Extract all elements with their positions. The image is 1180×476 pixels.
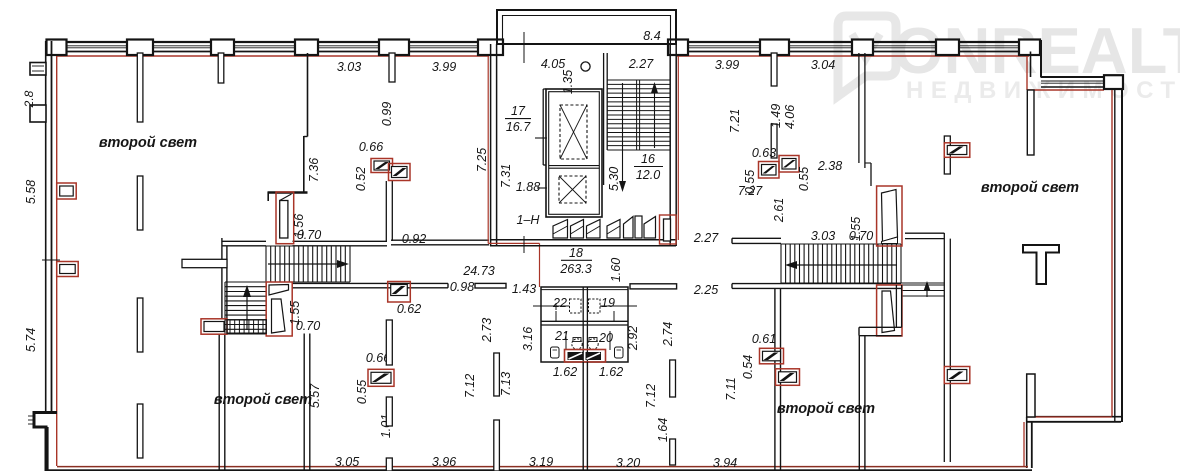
red boundary descent to wc	[539, 243, 541, 287]
wc washbasin dashed right	[589, 299, 601, 313]
core louver left 2	[571, 220, 584, 239]
door D-R1 leaf	[882, 190, 898, 242]
wall lower-left room west x222	[218, 334, 220, 472]
svg-text:7.12: 7.12	[644, 384, 658, 408]
watermark logo	[838, 16, 896, 96]
stair upper flight arrow right	[268, 263, 342, 265]
wall stub bottom-right corner	[1027, 374, 1035, 417]
elevator 2 cab dashed	[559, 176, 586, 203]
svg-text:5.74: 5.74	[24, 328, 38, 352]
svg-text:3.94: 3.94	[713, 456, 737, 470]
window W-R948b red box	[944, 367, 970, 384]
svg-text:5.58: 5.58	[24, 180, 38, 204]
svg-text:12.0: 12.0	[636, 168, 660, 182]
svg-text:0.92: 0.92	[402, 232, 426, 246]
wall ledge above door D-UL	[268, 191, 308, 193]
door D-LL1 leaf lower	[272, 299, 286, 333]
svg-text:2.25: 2.25	[693, 283, 718, 297]
core left wall lower stub a	[494, 353, 500, 396]
wall notch left stub	[30, 105, 46, 122]
svg-text:7.25: 7.25	[475, 148, 489, 172]
wall stub column line x140 segment 2	[137, 176, 143, 230]
wall stub x948 upper segment	[944, 136, 950, 174]
wall outer top left section	[47, 41, 497, 43]
elevator 1 cab dashed	[560, 105, 587, 159]
column K2	[127, 40, 153, 56]
column K10	[936, 40, 959, 56]
core right wall	[669, 44, 671, 246]
door D-R1 red box	[877, 186, 902, 246]
wc tick stub left room	[555, 303, 557, 310]
wc top wall inner line	[541, 289, 628, 291]
column K8	[760, 40, 789, 56]
column K6	[478, 40, 503, 56]
svg-text:16: 16	[641, 152, 655, 166]
svg-text:0.70: 0.70	[849, 229, 873, 243]
wall step below right stair	[859, 326, 902, 328]
wall stub column line x140 segment 1	[137, 53, 143, 122]
svg-text:24.73: 24.73	[462, 264, 494, 278]
wall corridor upper y240 right of stair	[391, 239, 489, 241]
wall corridor upper left y243	[222, 240, 266, 242]
wc door red box bottom	[565, 350, 606, 363]
elevator 2 cross	[559, 176, 586, 203]
svg-text:второй свет: второй свет	[981, 180, 1079, 196]
svg-text:0.54: 0.54	[741, 355, 755, 379]
core louver right 4	[644, 217, 656, 239]
window W-UL2 red box	[389, 164, 411, 181]
column K9	[852, 40, 873, 56]
wall notch left upper with hatch	[30, 63, 46, 76]
wall piece right of door D-R2	[895, 285, 897, 327]
wall pier x774 y124-158	[771, 124, 777, 158]
window W-L1 red box	[57, 183, 76, 199]
svg-text:3.19: 3.19	[529, 455, 553, 469]
svg-text:2.92: 2.92	[626, 326, 640, 351]
svg-text:0.70: 0.70	[297, 228, 321, 242]
wall x862 to bottom	[858, 336, 860, 471]
svg-text:0.70: 0.70	[296, 319, 320, 333]
column K7	[668, 40, 688, 56]
svg-text:7.21: 7.21	[728, 109, 742, 133]
core stair west wall	[603, 53, 605, 185]
svg-text:2.38: 2.38	[817, 159, 842, 173]
wall horizontal step y77	[1041, 76, 1104, 78]
door D-UL leaf	[280, 201, 288, 239]
red boundary step right 1	[1026, 56, 1028, 90]
svg-text:0.52: 0.52	[354, 167, 368, 191]
elevator shaft left pier	[542, 89, 544, 165]
svg-text:0.98: 0.98	[450, 280, 474, 294]
column K1	[47, 40, 67, 56]
svg-text:1.88: 1.88	[516, 180, 540, 194]
svg-text:второй свет: второй свет	[214, 392, 312, 408]
window W-UR2 red box	[779, 156, 799, 173]
column K4	[295, 40, 318, 56]
svg-text:1.49: 1.49	[769, 104, 783, 128]
svg-text:21: 21	[554, 329, 569, 343]
svg-text:7.12: 7.12	[463, 374, 477, 398]
door D-R2 leaf	[882, 291, 895, 333]
svg-text:2.74: 2.74	[661, 322, 675, 347]
wall bottom-right horizontal step	[1026, 416, 1121, 418]
svg-text:2.27: 2.27	[628, 57, 654, 71]
window W-L2 red box	[57, 262, 78, 277]
wall corridor upper right y240	[732, 237, 781, 239]
wall x778 lower long	[774, 288, 776, 471]
red boundary right vertical	[1111, 90, 1113, 417]
core louver left 3	[587, 220, 601, 239]
column K11	[1019, 40, 1040, 56]
wall stub column line x140 segment 3	[137, 298, 143, 352]
window W-R948a red box	[944, 143, 970, 158]
svg-text:0.61: 0.61	[752, 332, 776, 346]
window W-C red box	[388, 282, 411, 303]
red boundary bottom-right step	[1028, 416, 1112, 418]
svg-text:0.63: 0.63	[752, 146, 776, 160]
core stair divider	[636, 80, 638, 150]
svg-text:3.99: 3.99	[715, 58, 739, 72]
wall stub below column K3	[218, 53, 224, 83]
wc washbasin dashed left	[570, 299, 582, 313]
wc fixture left	[551, 347, 560, 358]
wall step down from column K11	[1030, 52, 1032, 78]
red boundary core right	[677, 56, 679, 240]
stair lower flight treads	[225, 282, 266, 334]
stair right flight treads	[781, 244, 944, 283]
svg-text:20: 20	[598, 331, 613, 345]
wall outer top right section	[676, 41, 1041, 43]
svg-text:3.16: 3.16	[521, 327, 535, 351]
svg-text:0.66: 0.66	[359, 140, 383, 154]
door D-core red box	[660, 215, 677, 244]
svg-text:5.30: 5.30	[607, 167, 621, 191]
wc block outer walls	[541, 287, 628, 362]
svg-text:3.96: 3.96	[432, 455, 456, 469]
core louver right 2	[624, 217, 634, 239]
red boundary line top	[57, 55, 489, 57]
svg-text:4.05: 4.05	[541, 57, 565, 71]
wall corridor lower left y285 segment A	[293, 282, 449, 284]
wall below column K4 upper	[307, 53, 309, 137]
dimension tick above wall	[523, 32, 525, 63]
wall below column K4 step	[304, 136, 308, 138]
core louver right 3	[635, 216, 642, 238]
wc tick right	[600, 305, 637, 307]
red boundary step right 2	[1027, 89, 1104, 91]
svg-text:0.99: 0.99	[380, 102, 394, 126]
wall stub column line x140 segment 4	[137, 404, 143, 458]
wc tick left	[533, 305, 570, 307]
red boundary core left	[487, 56, 489, 243]
core stair arrow down	[622, 83, 624, 186]
svg-text:18: 18	[569, 246, 583, 260]
wall cap x948 top	[905, 232, 944, 234]
elevator shaft divider	[549, 165, 600, 167]
wall stub below column K5	[389, 53, 395, 82]
core top machine-room box	[497, 10, 676, 44]
wc partition tick room22	[555, 311, 557, 322]
left wall tick	[42, 259, 60, 261]
svg-text:1.62: 1.62	[599, 365, 623, 379]
stair right landing arrow	[926, 286, 928, 297]
core stair treads	[607, 80, 670, 150]
svg-text:3.04: 3.04	[811, 58, 835, 72]
svg-text:2.8: 2.8	[22, 90, 36, 108]
svg-text:3.03: 3.03	[337, 60, 361, 74]
core louver left 1	[553, 220, 568, 239]
wall stub hanging below step corner	[1027, 90, 1034, 155]
wc door leaf 2	[586, 352, 602, 360]
wall hatched window sill lower-left	[227, 320, 266, 333]
wall outer left vertical	[45, 41, 47, 412]
stair lower flight arrow up	[246, 292, 248, 330]
svg-text:7.31: 7.31	[499, 164, 513, 188]
svg-text:1.60: 1.60	[609, 258, 623, 282]
core bottom wall	[490, 239, 676, 241]
svg-text:1.62: 1.62	[553, 365, 577, 379]
elevator dimension tick 1	[535, 137, 547, 139]
wc fixture right	[615, 347, 624, 358]
wc center wall	[582, 287, 584, 362]
svg-text:3.05: 3.05	[335, 455, 359, 469]
wall below wc to bottom	[582, 362, 584, 471]
stair upper flight treads	[266, 246, 350, 282]
svg-text:2.27: 2.27	[693, 231, 719, 245]
wall below column K9	[858, 53, 860, 163]
dimension tick below core	[523, 236, 525, 253]
wc toilet right	[588, 339, 598, 349]
wall corridor upper y241 over stair	[293, 240, 388, 242]
wall room-side left vertical x224	[221, 238, 223, 319]
svg-text:19: 19	[601, 296, 615, 310]
core stair arrow up	[654, 88, 656, 148]
svg-text:второй свет: второй свет	[777, 401, 875, 417]
core left wall lower stub b	[494, 420, 500, 471]
svg-text:3.99: 3.99	[432, 60, 456, 74]
column T-shape right	[1023, 245, 1059, 284]
window W-LC red box	[368, 369, 394, 386]
svg-text:1.64: 1.64	[656, 418, 670, 442]
wall corridor lower left y285 segment B	[475, 283, 506, 288]
column K12 step corner	[1104, 75, 1123, 89]
wc door leaf 1	[568, 352, 584, 360]
svg-text:22: 22	[552, 296, 567, 310]
red boundary under core bottom	[488, 242, 539, 244]
door D-R2 red box	[877, 285, 902, 336]
door circle symbol	[581, 62, 590, 71]
svg-text:7.13: 7.13	[499, 372, 513, 396]
svg-text:0.55: 0.55	[797, 167, 811, 191]
svg-text:1–Н: 1–Н	[517, 213, 541, 227]
red boundary bottom	[57, 466, 1028, 468]
wall bottom-right vertical to bottom	[1026, 417, 1028, 468]
wall x948 lower long	[943, 233, 945, 462]
svg-text:17: 17	[511, 104, 526, 118]
wc toilet left	[572, 339, 582, 349]
wall stub below column K8	[771, 53, 777, 86]
door D-LL1 leaf upper	[269, 285, 289, 296]
door D-LL1 red box tall	[266, 282, 292, 336]
svg-text:263.3: 263.3	[559, 262, 591, 276]
wall stub x389 lower segment 2	[386, 397, 392, 426]
wall stub x389 lower segment 3	[386, 458, 392, 471]
window W-UR1 red box	[759, 162, 780, 179]
wall window pier x389 y173-241	[385, 181, 387, 241]
wc leader tick room20	[609, 331, 611, 350]
red boundary bottom-right vertical	[1023, 422, 1025, 466]
svg-text:второй свет: второй свет	[99, 135, 197, 151]
svg-text:7.11: 7.11	[724, 377, 738, 400]
svg-text:4.06: 4.06	[783, 105, 797, 129]
svg-text:1.35: 1.35	[561, 70, 575, 94]
stair right landing hatch	[902, 285, 944, 296]
svg-text:16.7: 16.7	[506, 120, 531, 134]
elevator shaft outer wall	[546, 89, 602, 217]
svg-text:0.62: 0.62	[397, 302, 421, 316]
wall dead-end stub in left room	[182, 259, 227, 267]
svg-text:3.20: 3.20	[616, 456, 640, 470]
wall corridor lower y285 right of wc	[630, 284, 677, 289]
elevator 1 cross	[560, 105, 587, 159]
core left wall	[490, 44, 492, 246]
svg-text:0.55: 0.55	[355, 380, 369, 404]
window W-RL1 red box	[760, 348, 784, 364]
wall lower-left room east x307	[303, 334, 305, 472]
column K5	[379, 40, 409, 56]
stair right flight arrow left	[792, 264, 897, 266]
column K3	[211, 40, 234, 56]
wall outer bottom	[46, 469, 1032, 471]
svg-text:7.27: 7.27	[738, 184, 763, 198]
wall stub x673 below core segment 1	[670, 360, 676, 397]
door D-UL red box	[276, 192, 294, 244]
wc partition tick room19	[613, 311, 615, 322]
window W-LL red box	[201, 319, 227, 334]
wall bottom-left jog	[34, 413, 57, 472]
elevator dimension tick 2	[537, 187, 547, 189]
wall stub x673 below core segment 2	[670, 439, 676, 465]
wall stub x389 lower segment 1	[386, 320, 392, 365]
red boundary left vertical	[56, 56, 58, 466]
wc leader tick room21	[565, 331, 567, 350]
svg-text:2.61: 2.61	[772, 198, 786, 223]
wall outer right vertical	[1114, 89, 1116, 422]
svg-text:7.36: 7.36	[307, 158, 321, 182]
svg-text:3.03: 3.03	[811, 229, 835, 243]
svg-text:2.73: 2.73	[480, 318, 494, 343]
window W-RL2 red box	[776, 369, 800, 386]
wall corridor lower right y285	[732, 283, 901, 285]
window W-UL1 red box	[371, 159, 393, 173]
wc middle wall	[541, 320, 628, 322]
core louver right 1	[607, 220, 620, 239]
svg-text:8.4: 8.4	[643, 29, 660, 43]
svg-text:1.43: 1.43	[512, 282, 536, 296]
